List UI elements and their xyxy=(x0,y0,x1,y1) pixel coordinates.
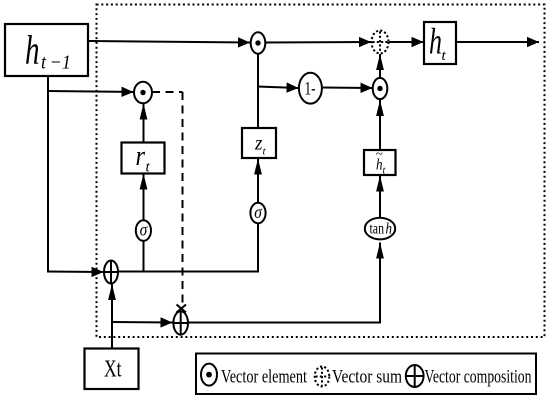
svg-text:Vector sum: Vector sum xyxy=(332,367,402,388)
dashed wire corner down to composition node 2 xyxy=(182,92,184,303)
wire sigma-left to r(t) arrow xyxy=(143,174,145,222)
1- ellipse xyxy=(299,73,322,104)
wire Xt up to composition node 1 xyxy=(111,284,113,349)
wire z(t) up to node B xyxy=(257,53,259,129)
legend box xyxy=(196,354,536,395)
legend vector-sum symbol xyxy=(315,367,330,387)
wire h(t) output xyxy=(456,41,539,43)
wire node B to vector-sum node xyxy=(265,41,371,44)
wire bus to sigma-right xyxy=(257,223,259,273)
svg-text:t −1: t −1 xyxy=(41,52,71,74)
wire tanh to h-tilde arrow xyxy=(379,176,381,220)
wire h(t-1) to element-product node B xyxy=(88,41,250,43)
box h(t) xyxy=(424,22,456,65)
svg-text:h: h xyxy=(429,22,442,63)
legend vector-composition symbol xyxy=(406,365,424,387)
wire h(t-1) bottom to composition node 1 xyxy=(47,271,104,274)
wire h(t-1) branch to element-product node A xyxy=(47,91,134,92)
box z(t) xyxy=(242,128,276,158)
svg-text:z: z xyxy=(254,131,262,155)
svg-text:h: h xyxy=(25,27,40,73)
wire Xt branch to composition node 2 xyxy=(111,321,173,324)
wire sigma-left to bus xyxy=(143,240,145,273)
box h(t-1) xyxy=(5,24,88,76)
open cross arrowhead on composition node 2 xyxy=(177,305,187,313)
wire bus composition node 1 to right xyxy=(117,271,259,273)
GRU cell dotted boundary xyxy=(97,5,545,338)
legend element-product symbol xyxy=(201,364,217,386)
svg-text:σ: σ xyxy=(140,220,149,240)
element-product node A xyxy=(134,82,152,104)
svg-text:Vector element: Vector element xyxy=(221,367,308,388)
wire node C up to vector-sum node xyxy=(379,54,381,79)
box r(t) xyxy=(122,140,165,176)
wire 1- ellipse to node C xyxy=(322,87,373,90)
tanh ellipse xyxy=(365,218,395,240)
svg-text:t: t xyxy=(383,166,386,177)
sigma-right circle xyxy=(250,202,265,223)
svg-text:σ: σ xyxy=(254,202,263,222)
element-product node C xyxy=(373,78,388,99)
box Xt xyxy=(85,349,139,390)
dashed wire node A to corner xyxy=(152,91,183,93)
svg-text:h: h xyxy=(386,221,393,238)
svg-text:tan: tan xyxy=(370,221,385,238)
wire h-tilde to node C arrow xyxy=(379,100,381,151)
wire r(t) to node A arrow xyxy=(143,104,145,144)
wire z branch to 1- ellipse xyxy=(257,87,299,89)
wire composition node 2 to tanh xyxy=(187,243,380,323)
svg-text:Xt: Xt xyxy=(104,357,122,383)
wire sigma-right to z(t) arrow xyxy=(257,159,259,205)
wire h(t-1) bottom vertical xyxy=(47,76,49,273)
svg-text:1-: 1- xyxy=(305,79,316,100)
box h-tilde(t) xyxy=(364,146,396,177)
svg-text:Vector composition: Vector composition xyxy=(425,367,532,388)
svg-text:r: r xyxy=(136,140,146,172)
composition node 2 (circle-plus) xyxy=(173,311,188,334)
vector-sum node (dashed circle) xyxy=(372,31,389,54)
sigma-left circle xyxy=(136,220,151,241)
wire vector-sum node to h(t) xyxy=(389,41,424,43)
composition node 1 (circle-plus) xyxy=(104,261,118,284)
element-product node B xyxy=(251,32,266,53)
